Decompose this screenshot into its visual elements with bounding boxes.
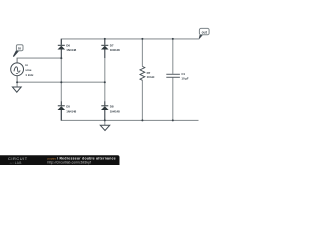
svg-text:1 kHz: 1 kHz: [25, 73, 34, 77]
svg-text:in: in: [25, 63, 28, 67]
svg-text:1N4148: 1N4148: [66, 109, 76, 113]
svg-text:sine: sine: [25, 68, 31, 72]
svg-text:in: in: [18, 46, 21, 50]
svg-text:http://circuitlab.com/c6il3kpf: http://circuitlab.com/c6il3kpf: [48, 160, 92, 164]
svg-text:10 kΩ: 10 kΩ: [147, 75, 155, 79]
svg-text:D7: D7: [110, 43, 114, 47]
svg-text:D5: D5: [66, 105, 70, 109]
svg-text:1N4148: 1N4148: [66, 48, 76, 52]
svg-text:C1: C1: [181, 72, 185, 76]
svg-text:out: out: [202, 30, 208, 34]
svg-text:D8: D8: [110, 105, 114, 109]
svg-text:10 µF: 10 µF: [181, 76, 188, 80]
svg-text:1N4148: 1N4148: [110, 48, 120, 52]
svg-text:D6: D6: [66, 43, 70, 47]
svg-text:1N4148: 1N4148: [110, 109, 120, 113]
svg-text:∼┄LAB: ∼┄LAB: [10, 161, 22, 165]
